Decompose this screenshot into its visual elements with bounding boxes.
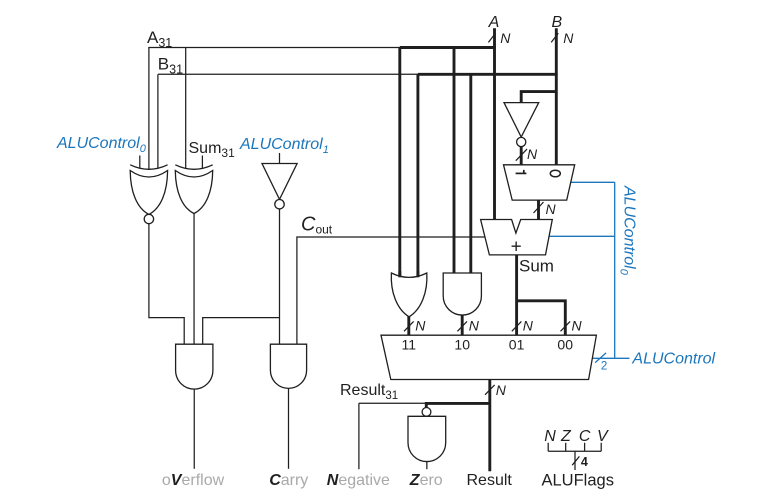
- svg-text:N: N: [563, 30, 574, 46]
- svg-text:Sum: Sum: [519, 257, 554, 276]
- svg-text:Z: Z: [560, 428, 572, 445]
- svg-text:10: 10: [454, 337, 470, 353]
- svg-text:Zero: Zero: [409, 472, 443, 489]
- svg-text:N: N: [500, 30, 511, 46]
- svg-text:N: N: [527, 146, 538, 162]
- svg-text:4: 4: [581, 455, 588, 469]
- svg-text:N: N: [496, 382, 507, 398]
- svg-text:00: 00: [557, 337, 573, 353]
- svg-text:N: N: [523, 318, 534, 334]
- svg-text:V: V: [597, 428, 609, 445]
- svg-text:N: N: [572, 318, 583, 334]
- svg-text:ALUFlags: ALUFlags: [542, 471, 614, 489]
- svg-text:+: +: [511, 237, 522, 258]
- svg-text:11: 11: [402, 337, 417, 353]
- svg-text:N: N: [544, 428, 556, 445]
- svg-text:C: C: [579, 428, 591, 445]
- svg-text:B: B: [551, 14, 562, 31]
- svg-text:2: 2: [601, 361, 607, 373]
- svg-text:01: 01: [509, 337, 525, 353]
- svg-text:oVerflow: oVerflow: [162, 472, 225, 489]
- svg-text:A: A: [488, 14, 500, 31]
- svg-text:N: N: [546, 201, 557, 217]
- svg-text:ALUControl1: ALUControl1: [239, 136, 329, 156]
- svg-text:N: N: [415, 318, 426, 334]
- svg-text:Negative: Negative: [327, 472, 390, 489]
- svg-text:Carry: Carry: [269, 472, 308, 489]
- svg-text:ALUControl: ALUControl: [631, 351, 715, 368]
- svg-text:N: N: [469, 318, 480, 334]
- svg-text:Result: Result: [467, 472, 513, 489]
